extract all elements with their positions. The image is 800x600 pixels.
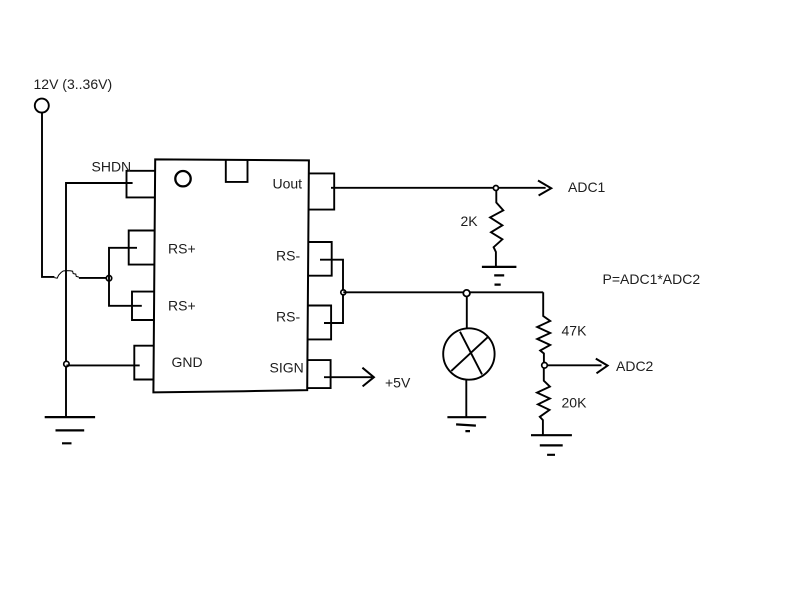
wire 12V vertical [42, 113, 54, 277]
wire lamp top [466, 297, 468, 329]
svg-text:47K: 47K [562, 323, 588, 339]
wire hop over SHDN net [54, 271, 79, 279]
svg-text:SIGN: SIGN [270, 360, 304, 376]
wire Uout to ADC1 [331, 187, 546, 189]
svg-text:RS-: RS- [276, 309, 300, 325]
pin RS+ (upper) [129, 231, 155, 265]
lamp L1 body [443, 328, 494, 379]
node ADC2 junction [542, 363, 548, 369]
arrow ADC2 [596, 359, 608, 374]
svg-text:RS-: RS- [276, 248, 300, 264]
node RS+ junction [106, 276, 111, 281]
wire lamp bottom [465, 380, 467, 417]
pin GND [134, 346, 154, 380]
node RS- junction [341, 290, 346, 295]
wire SHDN to ground [66, 183, 133, 417]
arrow ADC1 [538, 181, 551, 196]
ground G4 [531, 435, 572, 455]
svg-text:P=ADC1*ADC2: P=ADC1*ADC2 [603, 271, 701, 287]
wire ADC2 [547, 364, 601, 366]
svg-text:2K: 2K [461, 213, 479, 229]
svg-text:ADC1: ADC1 [568, 179, 606, 195]
resistor 20K [537, 368, 550, 435]
pin RS- (lower) [308, 306, 331, 340]
svg-text:12V (3..36V): 12V (3..36V) [34, 76, 113, 92]
node 2K junction [493, 186, 498, 191]
node GND junction [64, 361, 69, 366]
IC top notch [226, 160, 248, 182]
pin RS+ (lower) [132, 292, 155, 320]
wire RS- node to 47K [343, 291, 543, 293]
IC U1 body [153, 159, 309, 392]
svg-text:+5V: +5V [385, 375, 411, 391]
resistor 2K [490, 191, 503, 267]
svg-text:RS+: RS+ [168, 298, 196, 314]
node lamp junction [463, 290, 470, 297]
arrow +5V [362, 368, 374, 387]
pin SHDN [127, 171, 156, 198]
ground G1 [45, 417, 95, 443]
wire SIGN to +5V [324, 376, 372, 378]
wire GND pin [66, 364, 139, 366]
svg-text:Uout: Uout [273, 176, 303, 192]
svg-text:RS+: RS+ [168, 241, 196, 257]
lamp L1 cross [451, 332, 487, 375]
pin Uout [309, 173, 335, 209]
resistor 47K [537, 292, 550, 362]
wire RS- loop [320, 260, 343, 323]
svg-text:SHDN: SHDN [92, 159, 132, 175]
svg-text:20K: 20K [562, 395, 588, 411]
power terminal 12V [35, 99, 49, 113]
wire 12V to RS+ node [79, 277, 109, 279]
ground G2 [482, 267, 517, 285]
wire RS+ loop [109, 248, 142, 306]
svg-text:GND: GND [172, 354, 203, 370]
pin RS- (upper) [308, 242, 331, 276]
svg-text:ADC2: ADC2 [616, 358, 654, 374]
ground G3 [447, 417, 486, 431]
pin SIGN [307, 360, 330, 388]
pin-1 marker [175, 171, 190, 186]
